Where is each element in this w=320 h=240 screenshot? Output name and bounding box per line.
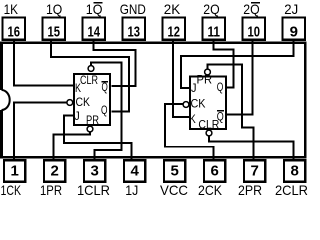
svg-text:CK: CK (76, 95, 91, 109)
svg-text:7: 7 (251, 163, 259, 180)
svg-text:2K: 2K (164, 1, 181, 17)
wire pin10 to U2 Q-bar output (227, 41, 253, 115)
pin 5 (164, 160, 185, 182)
svg-text:16: 16 (8, 23, 21, 40)
pin 1 (4, 160, 25, 182)
svg-text:Q: Q (101, 103, 108, 117)
wire pin2 to U1 PR input (54, 132, 91, 160)
wire pin9 to U2 J input (181, 41, 294, 89)
wire pin16 to U1 K input (14, 41, 73, 86)
pin 6 (204, 160, 225, 182)
svg-text:1CK: 1CK (1, 182, 22, 198)
pin 9 (282, 18, 305, 40)
svg-text:1J: 1J (125, 182, 138, 198)
svg-text:PR: PR (86, 113, 99, 127)
pin 15 (42, 18, 65, 40)
wire pin3 to U1 CLR input (91, 63, 122, 160)
U1 PR bubble (87, 126, 93, 132)
svg-text:1Q: 1Q (46, 1, 62, 17)
svg-text:10: 10 (248, 23, 261, 40)
svg-text:J: J (191, 81, 197, 95)
pin label 2Q-bar (243, 1, 260, 17)
U1 label Q-bar top (102, 80, 108, 94)
U2 PR bubble (205, 69, 211, 75)
IC package outline left edge upper (0, 41, 3, 90)
wire pin8 to U2 CLR input (209, 136, 294, 160)
U2 CK bubble (183, 102, 189, 108)
svg-text:2PR: 2PR (238, 182, 262, 198)
svg-text:J: J (74, 109, 80, 123)
svg-text:2J: 2J (284, 1, 298, 17)
svg-text:K: K (75, 81, 81, 95)
U2 label Q-bar bottom (217, 110, 224, 124)
svg-text:2Q: 2Q (203, 1, 219, 17)
svg-text:11: 11 (208, 23, 221, 40)
U1 CLR bubble (88, 66, 94, 72)
svg-text:1K: 1K (4, 1, 19, 17)
svg-text:1CLR: 1CLR (77, 182, 110, 198)
svg-text:4: 4 (131, 163, 140, 180)
svg-text:14: 14 (88, 23, 101, 40)
package notch (2, 90, 10, 110)
pin 16 (2, 18, 25, 40)
svg-text:1PR: 1PR (40, 182, 62, 198)
svg-text:6: 6 (211, 163, 219, 180)
wire pin14 to U1 Q-bar output (94, 41, 136, 87)
svg-text:VCC: VCC (160, 182, 188, 198)
wire pin6 to U2 CK input (165, 104, 214, 160)
IC package outline bottom edge (0, 156, 307, 159)
svg-text:8: 8 (291, 163, 299, 180)
pin 12 (162, 18, 185, 40)
pin 10 (242, 18, 265, 40)
pin 14 (82, 18, 105, 40)
pin 8 (284, 160, 305, 182)
svg-text:9: 9 (290, 23, 298, 40)
svg-text:CLR: CLR (80, 73, 98, 87)
wire pin4 to U1 J input (64, 116, 132, 160)
svg-text:15: 15 (48, 23, 61, 40)
IC package outline left edge lower (0, 110, 3, 158)
wire pin1 to U1 CK input (14, 103, 67, 160)
IC package outline right edge (304, 41, 307, 158)
U2 CLR bubble (206, 130, 212, 136)
svg-text:K: K (189, 112, 196, 126)
svg-text:2CK: 2CK (198, 182, 223, 198)
pin label 1Q-bar (86, 1, 103, 17)
wire pin15 to U1 Q output (51, 41, 129, 112)
wire pin7 to U2 PR input (208, 65, 254, 160)
pin 11 (202, 18, 225, 40)
svg-text:PR: PR (197, 73, 213, 87)
svg-text:2: 2 (51, 163, 59, 180)
svg-text:CK: CK (191, 97, 206, 111)
pin 2 (44, 160, 65, 182)
wire pin12 to U2 K input (173, 41, 189, 118)
svg-text:13: 13 (128, 23, 141, 40)
svg-text:2CLR: 2CLR (275, 182, 308, 198)
pin 4 (124, 160, 145, 182)
IC package outline top edge (0, 41, 307, 44)
svg-text:5: 5 (171, 163, 179, 180)
svg-text:1: 1 (11, 163, 19, 180)
pin 13 (122, 18, 145, 40)
svg-text:GND: GND (120, 1, 146, 17)
wire pin11 to U2 Q output (214, 41, 234, 88)
U1 CK bubble (67, 100, 73, 106)
flip-flop U2 body (190, 77, 226, 130)
svg-text:3: 3 (91, 163, 99, 180)
svg-text:12: 12 (168, 23, 181, 40)
flip-flop U1 body (74, 74, 110, 125)
pin 7 (244, 160, 265, 182)
pin 3 (84, 160, 105, 182)
svg-text:Q: Q (217, 80, 224, 94)
